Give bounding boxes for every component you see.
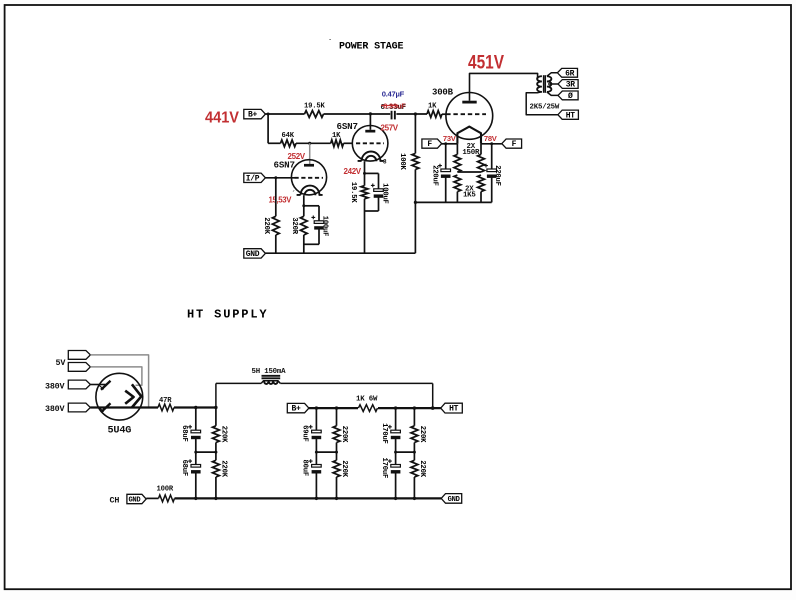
svg-text:Ø: Ø xyxy=(568,92,573,101)
capacitor 100uF U1 cathode xyxy=(314,221,324,224)
wire 380V lower through tube xyxy=(90,406,158,408)
svg-text:1K 6W: 1K 6W xyxy=(356,395,378,403)
wire U1 plate line gray xyxy=(309,143,311,164)
capacitor 100uF U2 cathode xyxy=(374,189,384,192)
wire U2 cathode down xyxy=(364,161,366,185)
resistor 1K5 right xyxy=(478,175,485,192)
svg-text:257V: 257V xyxy=(381,123,399,132)
wire cathode branch top xyxy=(365,172,379,174)
wire cathode cap branch top xyxy=(304,205,319,207)
resistor 320R cathode U1 xyxy=(300,216,307,235)
node A junction xyxy=(369,112,372,115)
capacitor 69uF top (x=316.4) xyxy=(315,408,317,430)
svg-text:252V: 252V xyxy=(288,152,306,161)
svg-text:CH: CH xyxy=(110,496,120,506)
svg-text:69uF: 69uF xyxy=(301,425,309,441)
svg-text:220K: 220K xyxy=(340,460,348,477)
svg-text:0.47µF: 0.47µF xyxy=(382,90,405,99)
transformer primary winding xyxy=(537,76,542,92)
wire secondary mid to 3R xyxy=(552,83,559,85)
resistor 1K5 left xyxy=(454,175,461,192)
wire filament mid connector xyxy=(457,171,481,173)
U1 plate bar xyxy=(304,164,314,167)
svg-text:47R: 47R xyxy=(159,397,172,405)
wire secondary bottom to 0 xyxy=(547,92,558,95)
svg-text:F: F xyxy=(427,140,432,149)
V1 filament chevron outer xyxy=(132,384,141,407)
capacitor 170uF bottom (x=395.6) xyxy=(395,452,397,464)
U1 grid dashes xyxy=(295,177,324,179)
terminal filament 2 xyxy=(68,363,90,372)
terminal 380V lower xyxy=(68,403,90,412)
svg-text:380V: 380V xyxy=(45,404,65,414)
resistor 100R xyxy=(159,495,175,502)
resistor 220K bottom (x=215.9) xyxy=(215,452,217,460)
wire rail to coupling cap xyxy=(324,113,391,115)
terminal 6R xyxy=(557,68,577,77)
U2 plate bar xyxy=(365,130,375,133)
resistor 220K top (x=336.5) xyxy=(336,408,338,426)
transformer core xyxy=(543,75,545,93)
svg-text:GND: GND xyxy=(448,496,460,504)
transformer secondary winding xyxy=(547,76,552,92)
svg-text:1K: 1K xyxy=(428,102,437,110)
resistor 47R xyxy=(158,404,174,411)
svg-text:220K: 220K xyxy=(262,217,270,234)
wire I/P to grid xyxy=(265,177,294,179)
svg-text:170uF: 170uF xyxy=(380,458,388,479)
capacitor 68uF bottom (x=195.8) xyxy=(195,452,197,464)
resistor 1K 6W xyxy=(358,403,378,413)
tube U3 300B envelope xyxy=(446,93,493,140)
wire cathode cap branch bottom xyxy=(304,243,319,245)
wire gnd rail supply xyxy=(175,497,442,499)
svg-text:220K: 220K xyxy=(340,426,348,443)
svg-text:F: F xyxy=(512,140,517,149)
svg-text:100uF: 100uF xyxy=(380,183,388,204)
resistor 220K bottom (x=414.4) xyxy=(413,452,415,460)
terminal I/P xyxy=(244,173,266,182)
wire 1K to U2 grid xyxy=(344,142,353,144)
U3 grid dashes xyxy=(446,113,486,115)
svg-text:POWER STAGE: POWER STAGE xyxy=(339,42,404,53)
wire secondary top to 6R xyxy=(547,73,558,76)
wire choke to HT junction xyxy=(432,383,434,408)
svg-text:8: 8 xyxy=(383,159,387,166)
wire B+ rail supply xyxy=(309,407,441,409)
svg-text:15,53V: 15,53V xyxy=(269,195,293,204)
wire 5V heater gray 2 xyxy=(90,367,141,385)
resistor 150R left xyxy=(456,144,458,155)
terminal F left xyxy=(422,139,442,148)
wire cathode branch bottom xyxy=(365,210,379,212)
wire U3 plate to transformer xyxy=(470,73,538,100)
terminal HT transformer xyxy=(558,110,579,119)
node B junction xyxy=(414,112,417,115)
resistor 220K top (x=414.4) xyxy=(413,408,415,426)
svg-text:19.5K: 19.5K xyxy=(304,102,325,110)
capacitor 220uF right xyxy=(491,144,493,169)
svg-text:220uF: 220uF xyxy=(493,165,501,186)
resistor 220K top (x=215.9) xyxy=(215,408,217,426)
wire node A to U2 plate xyxy=(369,114,371,130)
svg-text:220K: 220K xyxy=(418,460,426,477)
svg-text:3R: 3R xyxy=(566,81,576,90)
wire node B down to 100K xyxy=(414,114,416,153)
svg-text:220K: 220K xyxy=(219,426,227,443)
svg-text:5V: 5V xyxy=(56,358,67,368)
terminal 0 xyxy=(558,91,578,100)
svg-text:68uF: 68uF xyxy=(180,425,188,441)
wire choke rail right xyxy=(280,382,432,384)
wire choke rail left xyxy=(216,382,261,384)
svg-text:HT: HT xyxy=(449,405,459,414)
svg-text:220uF: 220uF xyxy=(430,165,438,186)
resistor 150R right xyxy=(480,144,482,155)
wire down to gnd rail xyxy=(414,202,416,253)
svg-text:I/P: I/P xyxy=(246,174,260,183)
wire 64K to 1K xyxy=(296,142,331,144)
wire U1 cathode down xyxy=(303,195,305,216)
svg-text:HT: HT xyxy=(566,111,576,120)
wire F left xyxy=(442,143,458,145)
V1 anode upper xyxy=(101,381,111,390)
svg-text:GND: GND xyxy=(246,250,260,259)
svg-text:220K: 220K xyxy=(219,460,227,477)
svg-text:5U4G: 5U4G xyxy=(108,425,132,436)
svg-text:1K5: 1K5 xyxy=(463,192,476,200)
U2 grid dashes xyxy=(356,142,384,144)
tube U1 6SN7 envelope xyxy=(291,160,326,195)
wire primary bottom to HT tag xyxy=(526,92,558,115)
wire 64K rail from B+ xyxy=(267,114,269,143)
resistor 100K grid leak xyxy=(412,153,419,169)
wire 5V heater gray 1 xyxy=(90,355,148,408)
svg-text:HT SUPPLY: HT SUPPLY xyxy=(187,308,268,322)
svg-text:78V: 78V xyxy=(484,134,498,143)
svg-text:170uF: 170uF xyxy=(380,423,388,444)
wire chassis gnd to 100R xyxy=(146,497,158,499)
U2 cathode arcs xyxy=(358,152,384,161)
wire mid junction (x=195.8) xyxy=(196,451,216,453)
svg-text:GND: GND xyxy=(128,497,140,505)
svg-text:451V: 451V xyxy=(468,53,504,74)
svg-text:220K: 220K xyxy=(418,426,426,443)
wire cap to node B xyxy=(396,113,427,115)
svg-text:100uF: 100uF xyxy=(321,216,329,237)
resistor 19.5K cathode U2 xyxy=(361,186,368,199)
svg-text:B+: B+ xyxy=(291,405,301,414)
wire 47R to choke riser xyxy=(174,406,216,408)
terminal F right xyxy=(502,139,522,148)
wire gnd rail power stage xyxy=(265,252,415,254)
V1 filament chevron inner xyxy=(125,391,133,404)
svg-text:300B: 300B xyxy=(432,88,454,98)
resistor 19.5K xyxy=(305,111,324,118)
svg-text:19.5K: 19.5K xyxy=(349,182,357,203)
svg-text:80uF: 80uF xyxy=(301,460,309,476)
resistor 1K grid stopper 300B xyxy=(427,111,442,118)
svg-text:320R: 320R xyxy=(290,217,298,234)
U1 cathode arcs xyxy=(297,186,323,195)
svg-text:100K: 100K xyxy=(398,153,406,170)
svg-text:6SN7: 6SN7 xyxy=(337,121,358,132)
svg-text:100R: 100R xyxy=(157,486,174,494)
resistor 220K bottom (x=336.5) xyxy=(336,452,338,460)
svg-text:2K5/25W: 2K5/25W xyxy=(530,103,560,111)
svg-text:1K: 1K xyxy=(332,132,341,140)
terminal B+ supply xyxy=(287,403,309,412)
svg-text:380V: 380V xyxy=(45,382,65,392)
svg-text:441V: 441V xyxy=(205,110,239,127)
wire filament bottom rail xyxy=(415,201,491,203)
resistor 64K xyxy=(281,140,297,147)
svg-text:68uF: 68uF xyxy=(180,460,188,476)
wire 380V to anode upper xyxy=(90,384,105,386)
svg-text:242V: 242V xyxy=(344,167,362,176)
terminal B+ xyxy=(244,109,266,118)
terminal GND power stage xyxy=(244,249,266,258)
V1 anode lower xyxy=(101,403,111,412)
terminal 380V upper xyxy=(68,380,90,389)
resistor 220K grid leak U1 xyxy=(275,178,277,217)
terminal HT supply xyxy=(441,403,463,413)
terminal GND chassis xyxy=(127,494,146,503)
wire choke riser xyxy=(215,383,217,407)
U3 plate bar xyxy=(462,101,476,104)
svg-text:64K: 64K xyxy=(282,132,295,140)
tube U2 6SN7 envelope xyxy=(352,126,388,162)
wire mid junction (x=316.4) xyxy=(316,451,336,453)
wire F right xyxy=(481,143,502,145)
wire B+ rail left xyxy=(265,113,304,115)
svg-text:6R: 6R xyxy=(565,69,575,78)
wire 100K to filament rail xyxy=(414,169,416,202)
capacitor 68uF top (x=195.8) xyxy=(195,408,197,431)
svg-text:73V: 73V xyxy=(443,134,457,143)
terminal 5V xyxy=(68,351,90,360)
node B+ tee xyxy=(267,113,270,116)
capacitor 170uF top (x=395.6) xyxy=(395,408,397,430)
wire U2 cathode to gnd xyxy=(364,199,366,253)
U3 filament tent xyxy=(457,127,481,144)
capacitor 0.47uF coupling xyxy=(391,111,393,120)
capacitor 80uF bottom (x=316.4) xyxy=(315,452,317,464)
wire 1K to 300B grid xyxy=(442,113,446,115)
svg-text:´: ´ xyxy=(328,40,332,48)
terminal 3R xyxy=(558,80,578,89)
svg-text:´: ´ xyxy=(292,191,296,199)
resistor 1K grid stopper U2 xyxy=(331,140,344,147)
terminal GND supply xyxy=(441,494,462,504)
wire mid junction (x=395.6) xyxy=(396,451,415,453)
svg-text:B+: B+ xyxy=(248,111,258,120)
tube V1 5U4G envelope xyxy=(96,373,143,420)
capacitor 220uF left xyxy=(445,144,447,169)
svg-text:150R: 150R xyxy=(462,149,480,157)
